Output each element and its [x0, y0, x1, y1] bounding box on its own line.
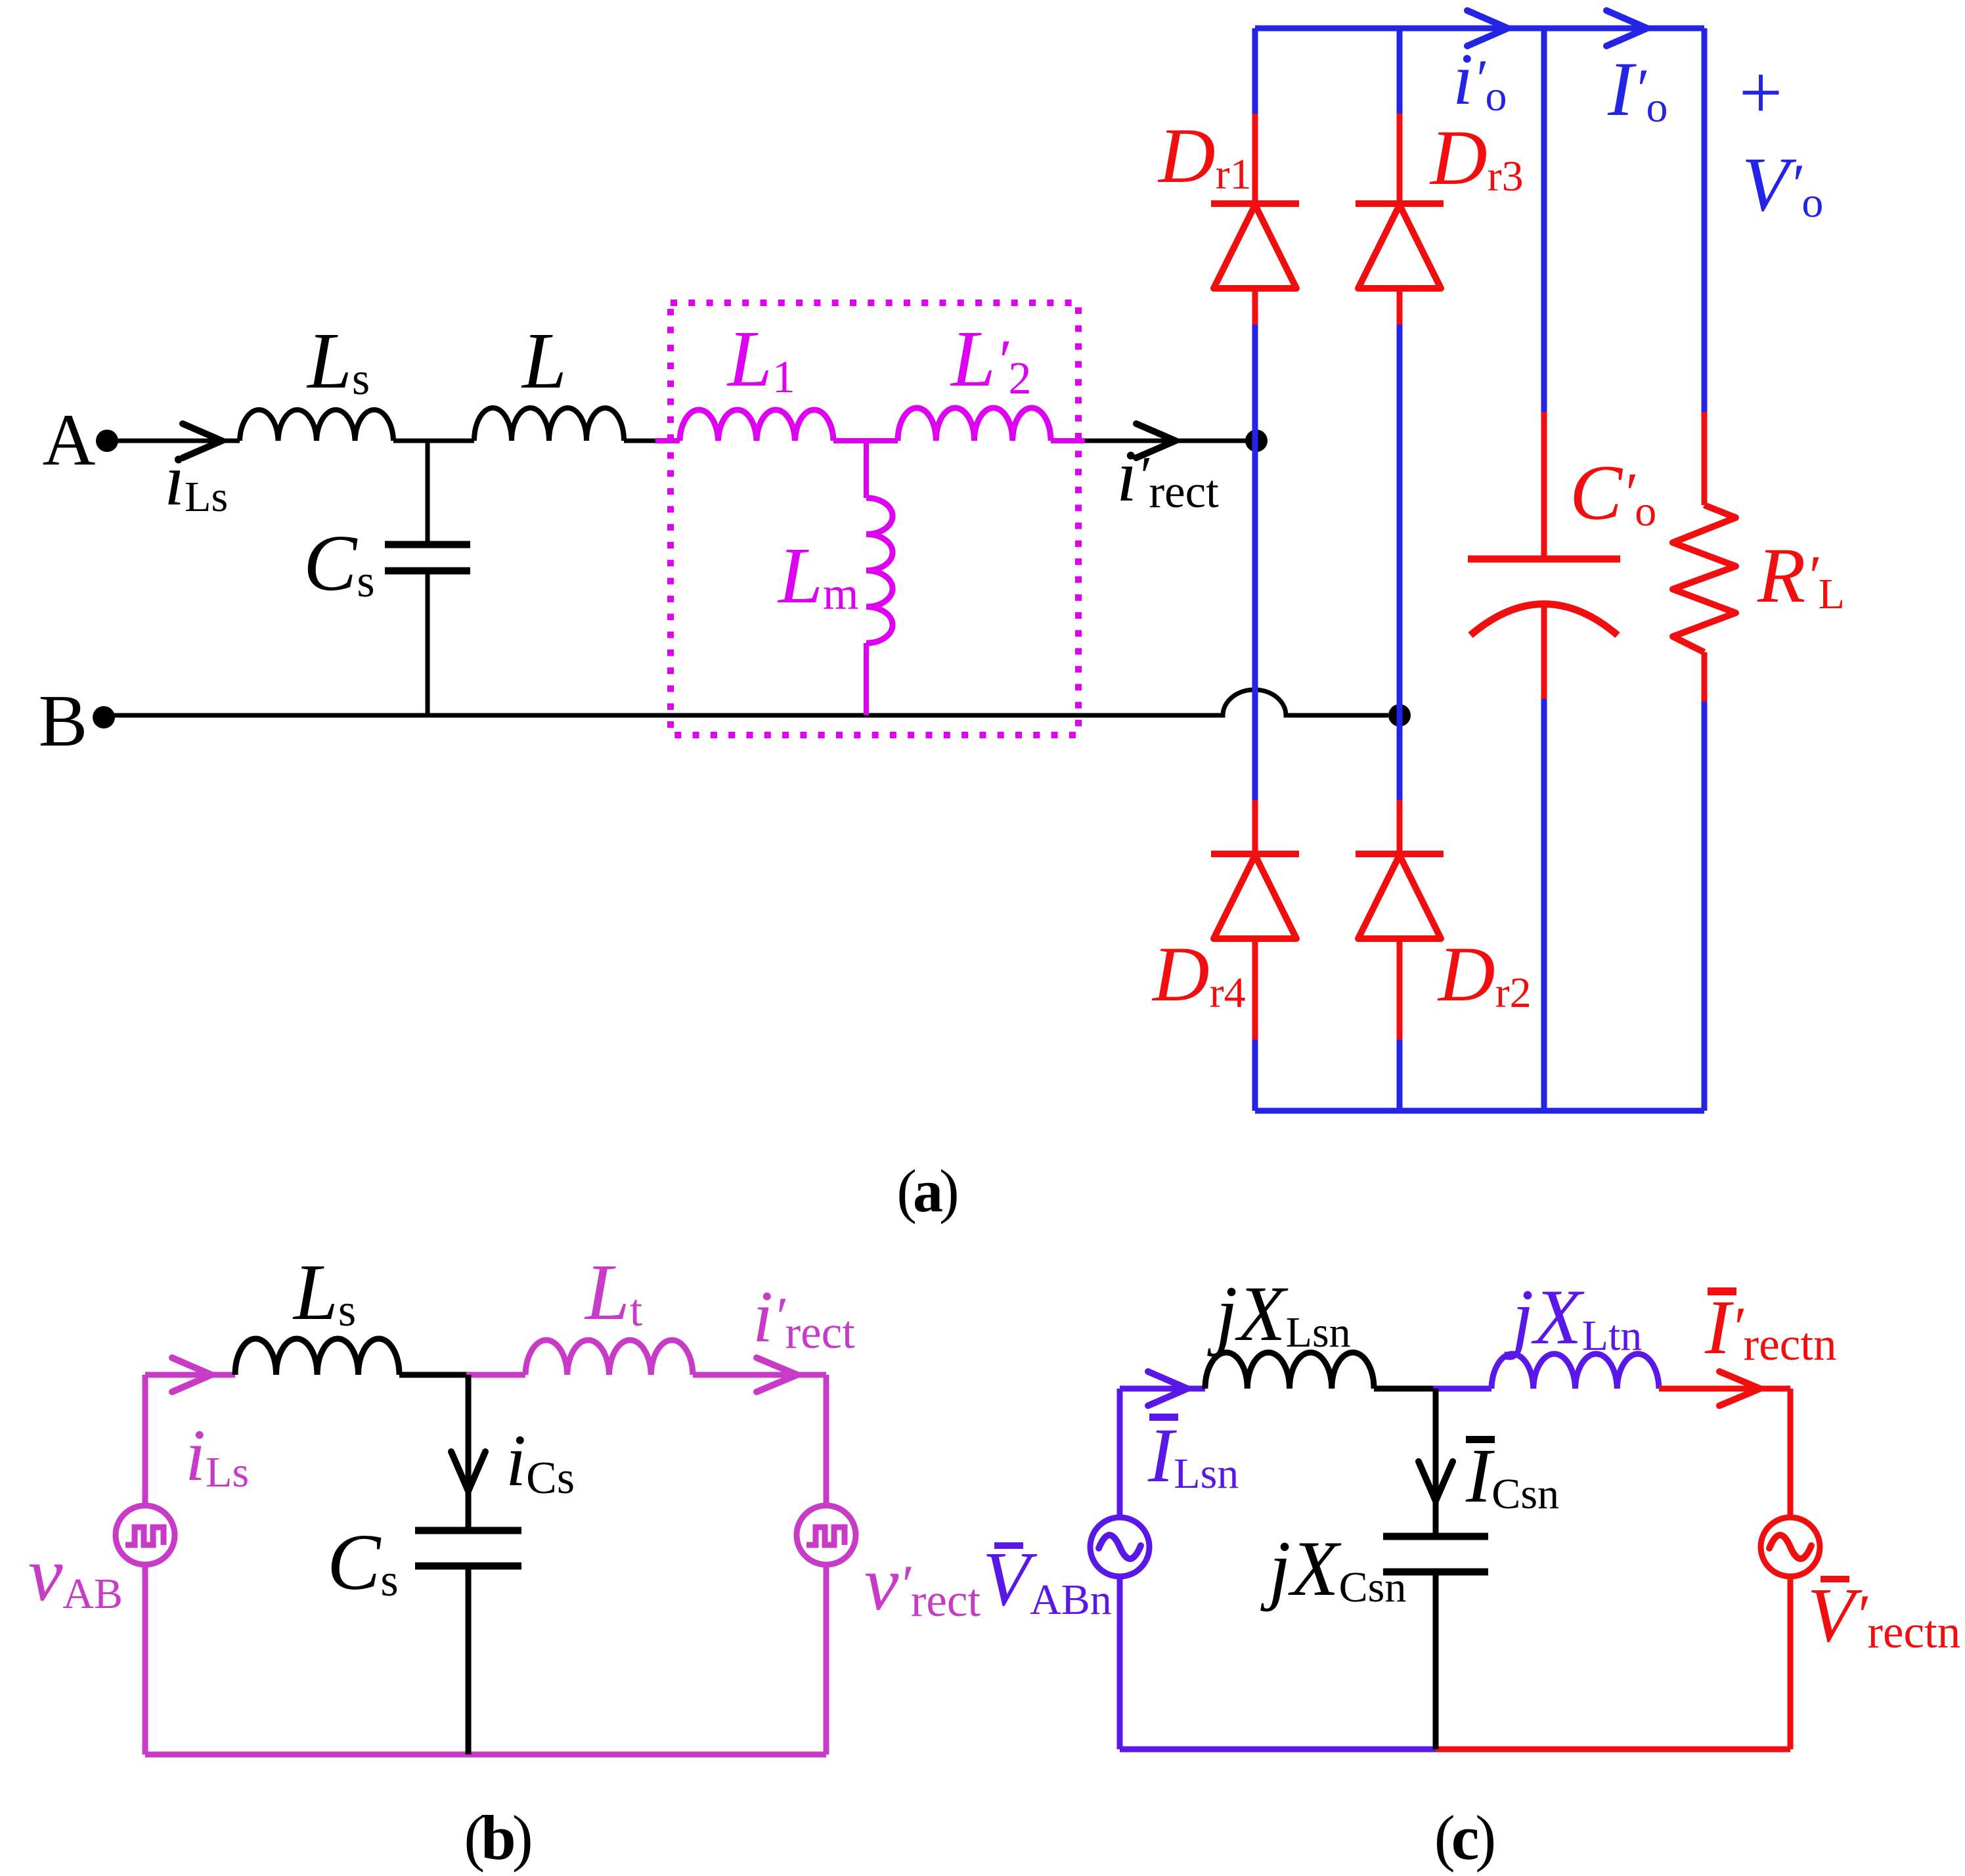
node A [43, 399, 118, 481]
wire L to box [624, 439, 657, 443]
capacitor Co branch blue wires [1541, 28, 1547, 412]
arrow ILsn [1148, 1372, 1187, 1406]
wire Lm upper [864, 441, 869, 498]
wire bottom rail left (violet) [1120, 1747, 1436, 1753]
svg-text:L: L [521, 317, 567, 405]
inductor L2' [898, 408, 1051, 441]
diode Dr1 [1211, 114, 1299, 324]
resistor RL branch blue wires [1702, 28, 1708, 412]
source vAB [116, 1506, 175, 1565]
wire jXLtn to corner (red) [1659, 1386, 1790, 1392]
wire top rail left [145, 1372, 235, 1378]
wire B rail with hop over diode branch [104, 690, 1388, 715]
wire left vertical top (c) [1117, 1389, 1123, 1517]
inductor jXLsn [1205, 1352, 1374, 1389]
node junction B rail to Dr3/Dr2 branch [1388, 704, 1411, 726]
arrow iCs [451, 1452, 485, 1491]
capacitor jXCsn [1383, 1536, 1488, 1572]
capacitor jXCsn branch middle vertical top [1433, 1389, 1439, 1533]
svg-text:A: A [43, 399, 96, 481]
inductor Ls (b) [235, 1339, 399, 1375]
blue output bottom rail [1255, 1108, 1704, 1114]
inductor L1 [680, 410, 833, 441]
wire left vertical bottom [143, 1565, 148, 1754]
source V'rectn [1761, 1517, 1820, 1576]
wire L2' to rectifier (magenta tail) [1051, 438, 1085, 443]
inductor Lt [525, 1340, 693, 1375]
diode Dr2 [1356, 800, 1444, 1040]
wire top rail left (c) [1120, 1386, 1205, 1392]
capacitor Cs branch (b) middle vertical top [466, 1375, 472, 1527]
wire Ls to L [393, 439, 474, 443]
label VABn with bar [982, 1536, 1112, 1624]
capacitor Co [1468, 412, 1620, 699]
source v'rect [797, 1506, 856, 1565]
wire right vertical top [824, 1375, 829, 1506]
arrow ICsn [1419, 1462, 1453, 1501]
wire junction to Lt (orchid) [466, 1372, 525, 1378]
diode Dr3 [1356, 114, 1444, 324]
svg-text:(c): (c) [1434, 1802, 1494, 1873]
svg-text:+: + [1739, 49, 1783, 135]
arrow i'rect [1136, 424, 1176, 458]
transformer model dotted box [671, 303, 1078, 735]
wire left vertical top [143, 1375, 148, 1506]
label ILsn with bar [1147, 1412, 1239, 1498]
wire left vertical bottom (c) [1117, 1576, 1123, 1749]
inductor L [474, 408, 624, 441]
label I'rectn with bar [1704, 1284, 1836, 1370]
diode Dr4 [1211, 800, 1299, 1040]
arrow iLs (b) [172, 1358, 211, 1392]
label ICsn with bar [1465, 1433, 1559, 1519]
wire to rectifier node [1085, 439, 1256, 443]
wire Ls to junction (black) [399, 1372, 470, 1378]
capacitor Cs (b) [415, 1530, 521, 1566]
arrow i'rect (b) [757, 1358, 797, 1392]
wire T junction [833, 438, 898, 443]
wire right vertical top (c) [1788, 1389, 1794, 1517]
arrow i'o [1467, 11, 1508, 46]
blue output top rail [1255, 26, 1704, 32]
wire Lm lower [864, 643, 869, 715]
label V'rectn with bar [1807, 1572, 1960, 1658]
arrow I'rectn [1719, 1372, 1760, 1406]
wire right vertical bottom [824, 1565, 829, 1754]
inductor Lm [866, 498, 893, 643]
arrow iLs [183, 424, 222, 458]
source VABn [1090, 1517, 1149, 1576]
svg-text:(a): (a) [896, 1157, 957, 1224]
wire junction to jXLtn (violet) [1433, 1386, 1491, 1392]
wire A to Ls [107, 439, 240, 443]
resistor RL' [1673, 412, 1736, 702]
wire magenta into L1 [655, 438, 680, 443]
capacitor Cs branch (b) middle vertical bottom [466, 1569, 472, 1754]
wire jXLsn to junction (black) [1374, 1386, 1438, 1392]
capacitor Cs branch wire top [426, 441, 430, 541]
wire Lt to corner [693, 1372, 826, 1378]
wire right vertical bottom (c) [1788, 1576, 1794, 1749]
capacitor Cs [385, 545, 470, 571]
arrow I'o [1606, 11, 1647, 46]
svg-text:(b): (b) [464, 1802, 530, 1873]
wire bottom rail right (red) [1436, 1747, 1790, 1753]
diode branch 2 blue wires [1397, 28, 1403, 114]
node rectifier input [1245, 430, 1268, 452]
inductor Ls [240, 410, 393, 441]
inductor jXLtn [1491, 1354, 1659, 1389]
svg-text:B: B [39, 681, 88, 762]
capacitor branch middle vertical bottom [1433, 1575, 1439, 1749]
wire bottom rail (b) [145, 1752, 826, 1758]
node B [39, 681, 115, 762]
diode branch 1 blue wires [1252, 28, 1258, 114]
capacitor Cs branch wire bottom [426, 574, 430, 715]
